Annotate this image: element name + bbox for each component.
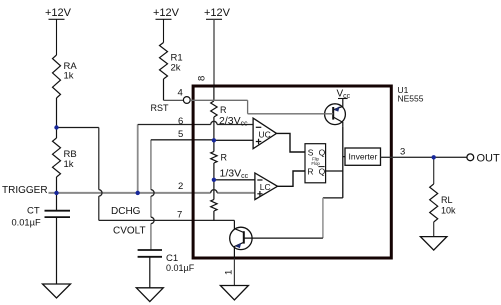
svg-text:0.01µF: 0.01µF xyxy=(12,218,41,228)
wire Qbar / collector bus xyxy=(323,126,345,198)
wire RA-RB junction to DCHG xyxy=(57,127,99,129)
svg-text:NE555: NE555 xyxy=(398,94,424,104)
svg-text:4: 4 xyxy=(178,88,183,99)
svg-text:3: 3 xyxy=(400,147,405,158)
wire hop pin2 over divider xyxy=(211,190,217,193)
svg-text:0.01µF: 0.01µF xyxy=(166,263,195,273)
svg-text:RST: RST xyxy=(151,103,170,113)
inverter box xyxy=(345,148,381,165)
resistor R (divider middle) xyxy=(211,152,217,164)
wire DCHG to pin 7 xyxy=(99,219,235,221)
svg-text:1k: 1k xyxy=(64,159,74,170)
ground (C1) xyxy=(136,288,163,302)
wire hop CVOLT over TRIGGER xyxy=(151,190,154,196)
svg-text:Flop: Flop xyxy=(311,161,320,166)
wire pin 5 horizontal xyxy=(151,139,214,141)
svg-text:6: 6 xyxy=(178,116,183,127)
wire hop pin6 over divider xyxy=(211,121,217,124)
node junction OUT-RL xyxy=(432,155,436,159)
wire pin4 RST internal xyxy=(190,100,333,114)
svg-text:DCHG: DCHG xyxy=(111,206,141,217)
transistor Q PNP (reset) xyxy=(325,99,346,127)
power Vcc (internal) xyxy=(337,89,351,101)
svg-text:TRIGGER: TRIGGER xyxy=(2,185,48,196)
svg-text:+12V: +12V xyxy=(204,7,231,19)
wire pin 3 OUT xyxy=(381,156,467,158)
node junction RA-RB xyxy=(54,125,58,129)
svg-text:RL: RL xyxy=(441,195,453,205)
wire TRIGGER (pins 2 and 6 net) xyxy=(49,192,255,194)
power +12V (pin 8 branch) xyxy=(204,7,231,19)
svg-text:CT: CT xyxy=(27,206,40,217)
wire hop DCHG over TRIGGER xyxy=(99,190,102,196)
svg-text:+12V: +12V xyxy=(153,7,180,19)
ground (RL) xyxy=(420,237,447,251)
wire pin8 into divider xyxy=(213,86,215,102)
wire pin 6 riser xyxy=(137,125,139,193)
svg-text:2k: 2k xyxy=(171,63,181,74)
op IC U1 NE555 box xyxy=(193,86,391,258)
wire LC output to R xyxy=(278,171,306,186)
svg-text:R: R xyxy=(221,153,228,163)
svg-text:LC: LC xyxy=(260,182,271,192)
op-amp comparator LC xyxy=(255,173,278,200)
ground (pin 1) xyxy=(220,286,248,301)
wire tap 2/3 to UC+ xyxy=(214,139,253,141)
node junction TRIGGER-RB-CT xyxy=(54,191,58,195)
resistor RA 1k xyxy=(53,55,78,128)
capacitor C1 0.01uF xyxy=(138,250,195,288)
svg-text:1k: 1k xyxy=(64,71,74,82)
wire pin 1 to ground xyxy=(233,259,235,286)
capacitor CT 0.01uF xyxy=(12,193,71,284)
svg-text:Q: Q xyxy=(319,167,326,177)
power +12V (RA branch) xyxy=(45,7,72,55)
wire pin 5 CVOLT xyxy=(150,140,152,250)
pin 4 bubble xyxy=(183,97,190,104)
wire Qbar route vertical xyxy=(322,198,324,238)
svg-text:R: R xyxy=(220,105,227,115)
wire UC output to S xyxy=(277,133,306,152)
wire pin 6 horizontal xyxy=(138,124,253,126)
resistor R1 2k xyxy=(160,43,183,101)
svg-text:Q: Q xyxy=(319,147,326,157)
transistor Q NPN (discharge) xyxy=(230,220,323,258)
svg-text:+12V: +12V xyxy=(45,7,72,19)
svg-text:UC: UC xyxy=(259,130,271,140)
NPN emitter arrow xyxy=(235,243,241,248)
resistor R (divider bottom) xyxy=(211,200,217,212)
svg-text:R: R xyxy=(307,167,313,177)
svg-text:7: 7 xyxy=(177,210,182,221)
resistor R (divider top) xyxy=(211,101,217,117)
svg-text:10k: 10k xyxy=(441,206,456,216)
terminal OUT xyxy=(467,154,474,161)
svg-text:2: 2 xyxy=(178,181,183,192)
PNP emitter arrow xyxy=(334,106,340,111)
node junction pin6-TRIGGER xyxy=(136,191,140,195)
wire hop CVOLT over DCHG xyxy=(151,217,154,223)
wire tap 1/3 to LC- xyxy=(214,179,255,181)
svg-text:8: 8 xyxy=(197,76,208,81)
node junction divider 1/3 tap xyxy=(212,178,216,182)
resistor RL 10k xyxy=(430,157,456,236)
svg-text:OUT: OUT xyxy=(477,153,501,165)
svg-text:Inverter: Inverter xyxy=(349,152,378,162)
node junction divider 2/3 tap xyxy=(212,138,216,142)
ground (CT) xyxy=(43,284,71,298)
svg-text:CVOLT: CVOLT xyxy=(113,226,146,237)
resistor RB 1k xyxy=(53,128,77,193)
op-amp comparator UC xyxy=(253,118,276,149)
power +12V (R1 branch) xyxy=(153,7,180,43)
wire +12V to pin 8 xyxy=(213,19,215,85)
svg-text:5: 5 xyxy=(178,129,183,140)
svg-text:1: 1 xyxy=(224,270,235,275)
flip-flop box xyxy=(305,144,326,183)
wire RST to pin 4 xyxy=(164,99,184,101)
